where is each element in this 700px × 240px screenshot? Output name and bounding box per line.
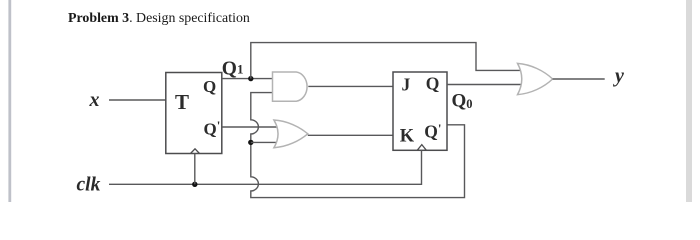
wire: AND gate output to J input bbox=[308, 85, 393, 87]
wire: output OR gate to y bbox=[553, 78, 605, 80]
wire: x input to T flip-flop bbox=[109, 99, 166, 101]
wire: junction to OR gate lower input bbox=[251, 141, 277, 143]
wire: Q1 up and across top to output OR gate bbox=[251, 43, 521, 79]
OR gate G3 (output) bbox=[518, 63, 553, 94]
svg-text:K: K bbox=[400, 126, 415, 146]
right page border bbox=[686, 0, 692, 202]
OR gate G2 (middle) bbox=[274, 120, 308, 148]
svg-text:clk: clk bbox=[77, 174, 101, 195]
wire: T.Q output to AND gate input (net Q1) bbox=[222, 78, 273, 80]
svg-text:y: y bbox=[613, 65, 624, 87]
svg-text:J: J bbox=[402, 74, 411, 94]
svg-text:Q': Q' bbox=[424, 121, 441, 142]
left page border bbox=[8, 0, 11, 202]
svg-text:Q0: Q0 bbox=[452, 90, 473, 111]
svg-text:Q': Q' bbox=[204, 118, 221, 139]
wire: Q0' feedback from JK Q' down, along bottom, up to AND gate lower input (with hops) bbox=[251, 93, 465, 198]
node: junction dot Q1 bbox=[248, 76, 253, 81]
JK flip-flop U2 (box) bbox=[393, 72, 447, 150]
svg-text:Q: Q bbox=[203, 77, 216, 96]
svg-text:Problem 3. Design specificatio: Problem 3. Design specification bbox=[68, 11, 250, 26]
wire: T.Q' to OR gate upper input bbox=[222, 126, 278, 128]
wire: clk line to JK clock input bbox=[109, 150, 422, 184]
clock triangle of JK flip-flop bbox=[417, 145, 426, 151]
T flip-flop U1 (box) bbox=[166, 73, 222, 154]
svg-text:x: x bbox=[89, 89, 100, 111]
svg-text:Q: Q bbox=[426, 74, 440, 94]
clock triangle of T flip-flop bbox=[191, 149, 200, 154]
svg-text:T: T bbox=[175, 90, 189, 114]
svg-text:Q1: Q1 bbox=[222, 59, 244, 80]
wire: clk junction up to T clock input bbox=[194, 154, 196, 185]
AND gate G1 bbox=[273, 72, 308, 101]
node: junction dot clk to T flip-flop bbox=[192, 182, 197, 187]
node: junction dot on Q0' feedback to OR gate bbox=[248, 140, 253, 145]
wire: OR gate output to K input bbox=[308, 134, 393, 136]
wire: JK.Q output to output OR gate lower input bbox=[447, 84, 521, 86]
